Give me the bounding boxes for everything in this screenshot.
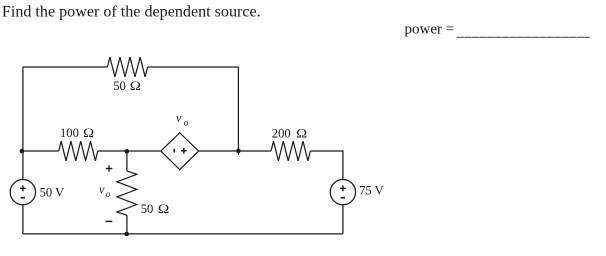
plus sign inside V2 [340, 185, 346, 191]
wire: upper-right vertical drop [237, 67, 239, 155]
svg-text:Ω: Ω [83, 126, 94, 140]
svg-text:75 V: 75 V [359, 183, 384, 197]
minus sign inside V2 [341, 197, 345, 199]
resistor R1 50 ohm (top) [107, 57, 147, 77]
svg-text:power =: power = [405, 22, 455, 38]
svg-text:v: v [176, 111, 182, 125]
svg-text:Ω: Ω [130, 79, 141, 93]
svg-text:50: 50 [113, 79, 126, 93]
resistor R2 100 ohm [59, 141, 98, 161]
wire: middle branch top lead [126, 151, 128, 171]
svg-text:Ω: Ω [158, 202, 169, 216]
dependent source U1 (diamond) [161, 133, 199, 170]
svg-text:Find the power of the dependen: Find the power of the dependent source. [2, 4, 261, 21]
control label v_o above dependent source [176, 111, 189, 129]
svg-text:50 V: 50 V [40, 186, 65, 200]
wire: left vertical (top node to 50V source) [22, 67, 24, 180]
plus sign inside dependent source [181, 148, 187, 154]
wire: top-left horizontal [23, 66, 108, 68]
minus sign inside V1 [21, 197, 25, 199]
voltage label v_o (middle branch) [99, 183, 111, 201]
minus polarity mark (v_o) [106, 220, 113, 222]
svg-text:v: v [99, 183, 105, 197]
wire: middle-right segment and right vertical down to 75V [310, 151, 343, 180]
svg-text:50: 50 [141, 202, 154, 216]
junction node B (middle branch top) [125, 149, 130, 154]
svg-text:100: 100 [60, 126, 79, 140]
svg-text:200: 200 [272, 126, 291, 140]
wire: middle segment to dependent source [98, 150, 161, 152]
junction node C (right of dependent source) [236, 149, 241, 154]
junction node D (middle branch bottom) [124, 232, 129, 237]
wire: bottom horizontal [23, 233, 343, 235]
wire: top-right horizontal [148, 66, 239, 68]
wire: 75V source bottom lead [342, 205, 344, 234]
svg-text:o: o [184, 119, 189, 129]
voltage source V1 50V (circle) [10, 180, 35, 205]
wire: middle segment from dependent source to 200 ohm [199, 150, 271, 152]
wire: 50V source bottom lead to bottom-left corner [22, 205, 24, 234]
resistor R4 50 ohm (vertical) [117, 171, 137, 215]
svg-text:Ω: Ω [296, 126, 307, 140]
answer blank line [457, 36, 590, 38]
wire: middle branch bottom lead [126, 215, 128, 234]
plus polarity mark (v_o) [106, 165, 113, 171]
wire: middle-left segment [23, 150, 59, 152]
resistor R3 200 ohm [271, 141, 310, 161]
junction node A (left, middle rail) [20, 149, 25, 154]
svg-text:o: o [106, 190, 111, 200]
plus sign inside V1 [20, 185, 26, 191]
minus tick inside dependent source [173, 149, 175, 153]
voltage source V2 75V (circle) [330, 180, 355, 205]
